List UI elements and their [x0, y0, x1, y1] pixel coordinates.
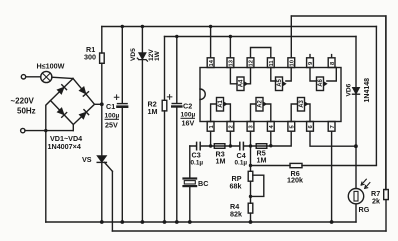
svg-text:10: 10 — [290, 60, 296, 66]
photoresistor RG — [348, 179, 370, 204]
wire pin8 stub — [331, 55, 333, 58]
wire top rail y16 from pin10 to right side down to R7 — [292, 16, 386, 190]
wire jumper pins 12-11 — [251, 48, 271, 58]
svg-text:BC: BC — [198, 179, 208, 188]
node input terminal bottom — [21, 128, 25, 132]
wire RP wiper loop — [251, 175, 264, 196]
svg-text:1M: 1M — [148, 107, 158, 116]
wire pin9 stub — [309, 55, 311, 58]
svg-text:H≤100W: H≤100W — [37, 62, 65, 71]
wire R2 to ground rail — [164, 111, 166, 222]
capacitor C1 — [114, 95, 127, 107]
wire R2 branch — [164, 37, 166, 101]
resistor R6 — [290, 163, 302, 167]
pin 13 box — [227, 58, 234, 68]
svg-text:100µ: 100µ — [181, 112, 196, 119]
wire lamp to bridge top — [52, 77, 73, 78]
capacitor C2 — [167, 95, 181, 107]
diode VD4 bottom-right side — [79, 110, 89, 120]
lamp H — [41, 71, 52, 82]
pin 6 box — [307, 122, 314, 132]
svg-text:25V: 25V — [105, 121, 118, 130]
diode VD3 bottom-left side — [57, 108, 67, 118]
pin 8 box — [328, 58, 335, 68]
resistor R7 — [384, 190, 389, 200]
svg-text:0.1µ: 0.1µ — [191, 160, 204, 167]
wire right end of +12V rail down to R6 wire — [375, 27, 377, 165]
svg-text:300: 300 — [84, 53, 96, 62]
svg-text:100µ: 100µ — [105, 113, 120, 120]
wire +12V rail y26.5 — [102, 26, 377, 28]
resistor R2 — [162, 100, 167, 111]
ceramic resonator BC — [184, 179, 197, 187]
svg-text:VS: VS — [82, 155, 92, 164]
pin 9 box — [307, 58, 314, 68]
wire gate rail y231 — [112, 230, 386, 232]
diode VD6 — [353, 88, 360, 95]
svg-text:0.1µ: 0.1µ — [235, 160, 248, 167]
wire R1 branch vertical — [101, 27, 103, 54]
resistor R4 — [248, 203, 253, 213]
diode VD1 top-left side — [57, 85, 67, 95]
svg-text:1N4148: 1N4148 — [364, 78, 371, 103]
thyristor VS — [97, 156, 112, 172]
svg-text:120k: 120k — [287, 176, 303, 185]
svg-text:C3: C3 — [192, 151, 201, 160]
svg-text:C1: C1 — [106, 102, 115, 111]
zener diode VD5 — [137, 53, 147, 61]
wire terminal to lamp — [26, 76, 41, 78]
wire bridge node down to VS — [101, 104, 103, 155]
svg-text:68k: 68k — [230, 182, 242, 191]
wire pin1 to RC wire — [210, 131, 212, 146]
wire bridge minus down to ground rail — [46, 101, 51, 223]
wire R6 rail y165.5 — [251, 165, 377, 167]
wire pin6 to VD6 line — [310, 131, 356, 146]
inverter A1 — [211, 98, 231, 122]
wire pin7 to ground rail — [331, 131, 333, 222]
pin 12 box — [247, 58, 254, 68]
wire pin13 to rail y36.5 — [229, 37, 231, 58]
resistor R1 — [100, 53, 105, 63]
wire BC branch from RC wire — [189, 146, 191, 222]
wire pin2 to RC wire — [229, 131, 231, 146]
pin 14 box — [207, 58, 214, 68]
wire pin10 up to top rail — [290, 16, 292, 58]
svg-text:2k: 2k — [372, 197, 380, 206]
svg-text:7: 7 — [330, 125, 336, 128]
wire RC network horizontal y146 — [190, 131, 291, 146]
pin 1 box — [207, 122, 214, 132]
inverter A3 — [291, 98, 310, 122]
svg-text:~220V: ~220V — [11, 97, 35, 106]
inverter A5 — [271, 68, 291, 91]
wire terminal to bridge bottom — [25, 130, 73, 132]
wire R1 to bridge plus node — [101, 63, 103, 104]
svg-text:VD6: VD6 — [346, 83, 353, 96]
capacitor C3 — [197, 142, 201, 149]
svg-text:A2: A2 — [258, 99, 264, 107]
svg-text:13: 13 — [229, 59, 235, 66]
potentiometer RP — [248, 171, 253, 181]
wire pin14 to +12V rail — [210, 27, 212, 58]
svg-text:A3: A3 — [299, 99, 305, 107]
wire pin4 to RC wire — [270, 131, 272, 146]
node input terminal top — [21, 75, 25, 79]
wire bridge plus to node — [95, 103, 102, 105]
svg-text:16V: 16V — [182, 119, 195, 128]
svg-text:14: 14 — [209, 59, 215, 66]
wire VD5 branch — [141, 27, 143, 223]
wire VS gate down to gate rail — [111, 171, 113, 231]
pin 3 box — [247, 122, 254, 132]
pin 11 box — [267, 58, 274, 68]
svg-text:1M: 1M — [257, 156, 267, 165]
pin 5 box — [288, 122, 295, 132]
inverter A4 — [230, 68, 250, 91]
svg-text:82k: 82k — [230, 210, 242, 219]
svg-text:A1: A1 — [218, 99, 224, 107]
svg-text:VD5: VD5 — [130, 48, 137, 61]
svg-text:A5: A5 — [277, 78, 283, 86]
svg-text:11: 11 — [269, 60, 275, 67]
wire ground rail y222 — [46, 221, 356, 223]
rectifier bridge VD1~VD4 diamond — [51, 79, 95, 131]
svg-text:RG: RG — [359, 205, 370, 214]
inverter A2 — [251, 98, 271, 122]
svg-text:12: 12 — [249, 60, 255, 66]
resistor R3 — [214, 144, 225, 149]
diode VD2 top-right side — [79, 87, 89, 97]
capacitor C4 — [240, 142, 244, 149]
svg-text:A4: A4 — [239, 79, 245, 87]
svg-text:C2: C2 — [183, 102, 192, 111]
wire R7 branch — [385, 16, 387, 231]
pin 7 box — [328, 122, 335, 132]
svg-text:50Hz: 50Hz — [17, 107, 36, 116]
pin number labels — [209, 59, 336, 128]
wire pin3 down through RC wire to RP — [250, 131, 252, 171]
IC U1 body — [200, 68, 341, 122]
svg-text:1N4007×4: 1N4007×4 — [48, 142, 81, 151]
svg-text:1W: 1W — [154, 50, 161, 61]
svg-text:2: 2 — [229, 125, 235, 128]
resistor R5 — [256, 144, 267, 149]
IC notch — [200, 89, 205, 100]
wire C1 branch — [121, 27, 123, 223]
pin 4 box — [267, 122, 274, 132]
inverter A6 — [310, 68, 336, 91]
pin 2 box — [227, 122, 234, 132]
wire VD6 branch from y36.5 rail — [355, 37, 357, 189]
pin 10 box — [288, 58, 295, 68]
wire C2 branch — [176, 37, 178, 223]
wire VS cathode to ground rail — [101, 162, 103, 222]
wire RG bottom to ground rail — [355, 204, 357, 222]
wire RP to R4 — [250, 181, 252, 203]
wire rail y36.5 — [165, 36, 357, 38]
svg-text:A6: A6 — [318, 78, 324, 86]
svg-text:1M: 1M — [216, 157, 226, 166]
wire R4 to ground rail — [250, 213, 252, 222]
